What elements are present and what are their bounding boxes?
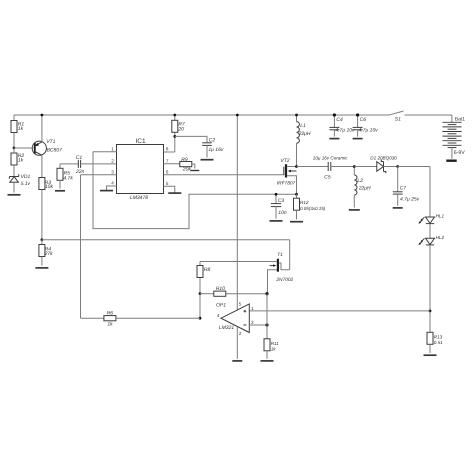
svg-text:5: 5 — [166, 181, 169, 186]
svg-text:5.1v: 5.1v — [21, 181, 31, 187]
pin 3 IC1 — [81, 169, 117, 174]
inductor L1 — [297, 115, 311, 167]
capacitor C5 — [297, 156, 355, 181]
transistor VT1 BC807 — [14, 115, 62, 178]
wire OP1 pin2 — [236, 327, 238, 359]
node R8-R10 — [199, 292, 202, 295]
svg-text:0.51: 0.51 — [434, 340, 443, 345]
pin 8 IC1 — [164, 147, 175, 152]
svg-text:LM3478: LM3478 — [130, 195, 148, 201]
svg-text:C3: C3 — [278, 198, 285, 204]
node LED sense — [429, 310, 432, 313]
svg-text:4.7μ 10v: 4.7μ 10v — [359, 128, 379, 134]
ground L2 — [349, 209, 360, 211]
node VT1 emitter rail — [41, 114, 44, 117]
battery Bat1 — [443, 117, 466, 159]
node VT2 source — [295, 193, 298, 196]
svg-text:VT2: VT2 — [280, 158, 289, 164]
svg-text:HL1: HL1 — [436, 213, 445, 218]
ground R11 — [261, 360, 274, 362]
node pin3-R11 — [265, 323, 268, 326]
pin 5 IC1 — [164, 181, 175, 193]
transistor VT2 IRF7807 — [277, 158, 297, 195]
svg-text:C2: C2 — [209, 138, 216, 144]
ground Bat1 — [446, 159, 456, 161]
ground pin 4 — [100, 190, 113, 192]
svg-text:R8: R8 — [204, 267, 211, 273]
svg-text:1k: 1k — [18, 158, 24, 164]
LED HL2 — [419, 235, 445, 332]
svg-text:10n: 10n — [278, 210, 287, 216]
svg-text:VD1: VD1 — [21, 174, 31, 180]
LED HL1 — [419, 213, 445, 238]
svg-text:R10: R10 — [216, 286, 225, 292]
capacitor C1 — [60, 155, 117, 175]
svg-text:8: 8 — [166, 147, 169, 152]
svg-text:OP1: OP1 — [216, 303, 226, 309]
svg-text:6-9V: 6-9V — [454, 150, 465, 156]
node R3-R4 junction — [41, 238, 44, 241]
node C3 junction — [275, 193, 278, 196]
wire OP1 pin3 — [249, 324, 267, 326]
svg-text:1: 1 — [251, 306, 254, 311]
svg-text:10k: 10k — [45, 184, 54, 190]
ground C3 — [270, 220, 283, 222]
svg-text:4: 4 — [111, 181, 114, 186]
node R7 rail — [173, 114, 176, 117]
svg-text:R6: R6 — [107, 311, 114, 317]
pin 1 IC1 — [93, 146, 117, 151]
svg-text:4.7k: 4.7k — [63, 175, 73, 181]
node supply rail — [236, 114, 239, 117]
svg-text:2N7002: 2N7002 — [275, 277, 293, 283]
svg-text:6: 6 — [166, 169, 169, 174]
zener diode VD1 — [9, 165, 30, 193]
svg-text:C5: C5 — [324, 174, 331, 180]
svg-text:C4: C4 — [336, 117, 343, 123]
svg-text:0.05(3x0.15): 0.05(3x0.15) — [300, 206, 326, 211]
wire top supply rail — [14, 115, 452, 122]
svg-text:S1: S1 — [395, 117, 401, 123]
svg-text:3: 3 — [111, 169, 114, 174]
svg-text:10μ 16v Ceramic: 10μ 16v Ceramic — [313, 156, 348, 161]
wire T1 source to R11 — [266, 294, 268, 339]
ground C6 — [353, 138, 363, 140]
node C6 rail — [356, 113, 359, 116]
svg-text:3: 3 — [251, 320, 254, 325]
resistor R5 — [57, 164, 73, 189]
svg-text:T1: T1 — [277, 252, 283, 258]
wire node to T1 drain — [42, 240, 290, 270]
svg-text:4.7μ 10v: 4.7μ 10v — [335, 128, 355, 134]
wire pin1 feedback loop — [93, 152, 297, 229]
svg-text:LM321: LM321 — [219, 325, 235, 331]
svg-text:VT1: VT1 — [46, 139, 55, 145]
svg-text:HL2: HL2 — [436, 235, 445, 240]
resistor R7 — [172, 115, 185, 152]
wire R8 node to output — [199, 294, 201, 319]
svg-text:R9: R9 — [181, 157, 188, 163]
node VT2 drain — [295, 165, 298, 168]
resistor R8 — [197, 262, 211, 294]
svg-text:20k: 20k — [182, 167, 192, 173]
wire D1 to LED chain — [398, 167, 430, 218]
svg-text:4: 4 — [217, 313, 220, 318]
svg-text:L2: L2 — [357, 178, 363, 184]
ground R12 — [290, 221, 303, 223]
svg-text:R12: R12 — [300, 200, 309, 205]
resistor R3 — [39, 178, 54, 240]
svg-text:1k: 1k — [107, 322, 113, 328]
svg-text:C6: C6 — [360, 117, 367, 123]
wire rail to OP1 pin5 — [237, 115, 242, 310]
svg-text:7: 7 — [166, 158, 169, 163]
svg-text:20: 20 — [177, 127, 184, 133]
capacitor C2 — [175, 136, 224, 157]
svg-text:BC807: BC807 — [47, 148, 63, 154]
IC IC1 LM3478 — [117, 138, 164, 201]
ground R9 — [190, 170, 199, 172]
resistor R11 — [264, 339, 279, 359]
pin 6 IC1 — [164, 169, 284, 174]
svg-text:1k: 1k — [271, 346, 277, 351]
ground C7 — [393, 207, 403, 209]
resistor R4 — [39, 240, 53, 266]
svg-text:5: 5 — [239, 302, 242, 307]
ground OP1 pin2 — [232, 360, 242, 362]
svg-text:Bat1: Bat1 — [455, 117, 466, 123]
ground C4 — [329, 138, 339, 140]
svg-text:C1: C1 — [76, 155, 83, 161]
wire L2 to D1 — [354, 166, 377, 168]
svg-text:IC1: IC1 — [135, 138, 146, 145]
resistor R13 — [427, 332, 443, 353]
node R10-T1 source — [265, 292, 268, 295]
resistor R12 — [294, 194, 326, 219]
svg-text:1k: 1k — [18, 126, 24, 132]
ground R4 — [35, 267, 48, 269]
resistor R1 — [11, 115, 24, 148]
svg-text:2: 2 — [111, 158, 114, 163]
node C4 rail — [333, 113, 336, 116]
pin 4 IC1 — [107, 181, 117, 191]
svg-text:D1 20BQ030: D1 20BQ030 — [370, 156, 397, 161]
node OP1 output — [199, 317, 202, 320]
svg-text:IRF7807: IRF7807 — [277, 181, 296, 187]
svg-text:22μH: 22μH — [358, 185, 371, 191]
inductor L2 — [354, 167, 371, 208]
resistor R10 — [200, 286, 267, 296]
switch S1 — [389, 111, 404, 123]
ground pin 5 — [168, 192, 181, 194]
pin 7 IC1 — [164, 158, 180, 163]
pin 2 IC1 — [111, 158, 114, 163]
capacitor C4 — [329, 115, 355, 137]
ground R5 — [55, 190, 65, 192]
node R7-C2-pin8 — [173, 135, 176, 138]
svg-text:27k: 27k — [44, 251, 54, 257]
node L1 rail — [295, 114, 298, 117]
capacitor C6 — [353, 115, 379, 137]
diode D1 20BQ030 — [370, 156, 397, 174]
svg-text:22n: 22n — [75, 169, 85, 175]
svg-text:C7: C7 — [400, 185, 407, 191]
ground C2 — [201, 159, 214, 161]
node L2 tap — [353, 165, 356, 168]
svg-text:2: 2 — [239, 331, 242, 336]
capacitor C7 — [393, 167, 420, 206]
svg-text:22μH: 22μH — [298, 131, 311, 137]
transistor T1 2N7002 — [200, 252, 294, 294]
resistor R9 — [180, 157, 195, 173]
wire sense line — [249, 310, 430, 312]
svg-text:1: 1 — [111, 146, 114, 151]
svg-text:L1: L1 — [300, 123, 306, 129]
resistor R6 — [81, 175, 201, 328]
op-amp OP1 LM321 — [216, 303, 254, 336]
ground R13 — [424, 354, 437, 356]
svg-text:4.7μ 25v: 4.7μ 25v — [400, 196, 420, 202]
node D1 cathode — [396, 165, 399, 168]
svg-text:1μ 16v: 1μ 16v — [208, 147, 223, 153]
svg-text:R11: R11 — [271, 341, 280, 346]
capacitor C3 — [271, 194, 287, 218]
node R1-R2-base — [13, 147, 16, 150]
resistor R2 — [11, 148, 24, 165]
ground VD1 — [8, 194, 21, 196]
